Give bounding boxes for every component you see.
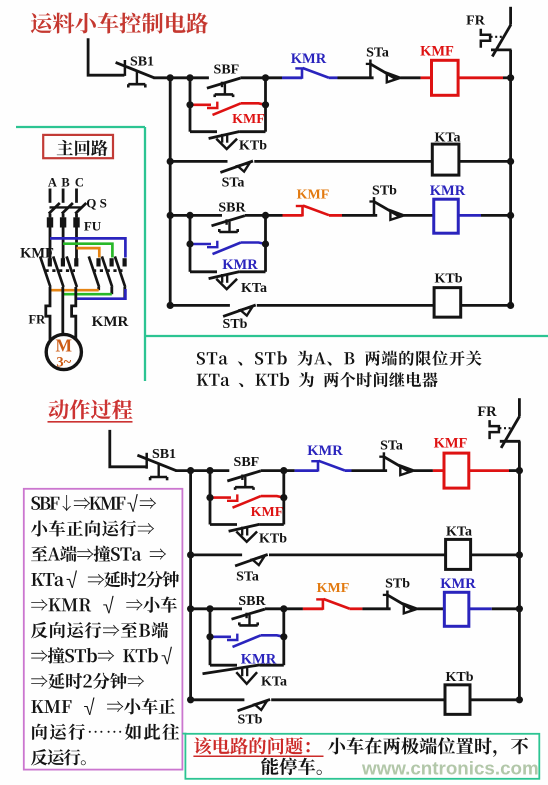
wire KMR to STa (action) [352, 469, 388, 472]
contact KMF main C [67, 256, 77, 287]
wire KMF coil to right bus (action) [469, 469, 520, 472]
watermark www.cntronics.com [361, 758, 539, 779]
limit switch STa (NC, action) [379, 452, 414, 475]
wire KMF to STb (action) [362, 607, 390, 610]
wire row2 left [170, 160, 227, 163]
label 主回路 [57, 140, 108, 156]
KMF linkage dotted [46, 269, 76, 272]
contact KMR main 1 [89, 256, 99, 287]
svg-text:STb: STb [372, 183, 397, 198]
junction left bus row2 [167, 158, 174, 165]
wire top feed to SB1 [88, 38, 124, 75]
fuse FU phase A [47, 214, 53, 228]
label KTb [239, 139, 267, 154]
problem text black part [328, 737, 528, 757]
wire KMR to STa [338, 76, 374, 79]
label KMR (blue, action) [307, 443, 343, 459]
junction KMR branch left (action) [206, 633, 213, 640]
label KTb (action) [259, 531, 287, 546]
sequence text line 7 [31, 647, 172, 665]
wire SBR to node (action) [265, 607, 284, 610]
coil KTa (time relay) [432, 144, 459, 175]
teal frame top line [16, 126, 145, 128]
svg-text:KMF: KMF [434, 436, 468, 452]
label phase A [48, 175, 57, 189]
label KTa contact (action) [261, 674, 287, 689]
junction KMF branch left [186, 101, 193, 108]
label M [56, 335, 73, 355]
problem text line2 [261, 758, 322, 775]
contact KMR main 2 [102, 256, 112, 287]
switch QS blade A [49, 203, 60, 214]
junction KMR branch right (action) [280, 633, 287, 640]
label STa (row2) [222, 176, 245, 191]
label FR heater [28, 312, 46, 326]
svg-text:STa: STa [222, 176, 245, 191]
wire green B-reverse [63, 244, 112, 258]
wire KTa branch left (action) [210, 664, 237, 667]
coil KMR (blue) [434, 199, 459, 233]
svg-text:STb: STb [385, 577, 410, 592]
contact KTa (NO delay, action) [203, 665, 260, 684]
wire KMR2 bottom lead [110, 287, 113, 294]
wire SB1 to SBF node [154, 76, 192, 79]
label FU [84, 219, 102, 234]
switch QS blade B [62, 203, 73, 214]
svg-text:KMF: KMF [297, 188, 330, 203]
svg-text:KTa: KTa [435, 130, 461, 145]
wire KTa coil to right bus (action) [471, 554, 520, 557]
svg-text:3~: 3~ [56, 355, 71, 371]
teal separator line [145, 335, 548, 337]
contact KTb (NC time-delay) [209, 132, 240, 150]
motor M 3~ [46, 334, 81, 369]
label phase C [75, 175, 84, 189]
sequence text line 8 [31, 673, 144, 689]
limit switch STb (row4) [223, 305, 256, 316]
svg-text:KMF: KMF [317, 581, 350, 596]
wire row3 left (action) [191, 607, 242, 610]
wire KMR3 bottom lead [123, 287, 126, 299]
label KMF coil (red, action) [434, 436, 468, 452]
svg-text:www.cntronics.com: www.cntronics.com [361, 758, 539, 779]
label STa (action) [380, 438, 403, 453]
wire orange reverse bottom to A [50, 289, 99, 292]
svg-text:KTb: KTb [434, 271, 462, 286]
wire KTa branch right [240, 270, 266, 273]
wire motor phase A with FR heater [46, 287, 50, 341]
label phase B [61, 175, 69, 189]
pushbutton SBR (NO start-reverse) [212, 216, 245, 232]
junction left bus row3 [167, 212, 174, 219]
label QS [86, 196, 107, 211]
wire motor phase B [61, 287, 64, 335]
svg-text:M: M [56, 335, 73, 355]
wire KTa branch right (action) [260, 664, 284, 667]
svg-text:KMR: KMR [430, 183, 466, 199]
contact KMF interlock (NC, red) [266, 206, 343, 217]
label KMF (red) [232, 112, 265, 127]
sequence text line 2 [31, 520, 154, 536]
svg-text:KTa: KTa [241, 281, 267, 296]
limit switch STa (row2) [220, 161, 253, 172]
label SBR [218, 200, 246, 215]
wire blue reverse bottom to C [76, 289, 126, 299]
label KMR self-hold (blue) [222, 257, 258, 273]
svg-text:SBR: SBR [218, 200, 246, 215]
svg-text:SBF: SBF [234, 455, 260, 470]
limit switch STb (row4, action) [238, 699, 271, 710]
wire row1 into SBF [190, 76, 209, 79]
wire row4 left [170, 304, 230, 307]
sequence text line 4 [31, 570, 179, 588]
junction SBF-block left (action) [206, 467, 213, 474]
label KMR coil (blue) [430, 183, 466, 199]
wire STb to KMR coil [404, 214, 434, 217]
junction KMF branch right [262, 101, 269, 108]
wire row1 into SBF (action) [210, 469, 229, 472]
wire STb to KMR coil (action) [417, 607, 444, 610]
wire phase B to KMF contact [62, 228, 65, 259]
junction SBF-block left row1 [186, 74, 193, 81]
label KMF (orange, action) [317, 581, 350, 596]
pushbutton SBR (NO, action) [232, 609, 265, 625]
label STa (row2, action) [236, 569, 259, 584]
label KMR (blue) [291, 51, 327, 67]
wire row3 left [170, 214, 222, 217]
limit switch STa (NC) [366, 60, 401, 83]
wire green reverse bottom to B [63, 293, 112, 296]
wire STa to KMF coil (action) [414, 469, 444, 472]
note line 1 [197, 350, 482, 365]
wire KTb coil to right bus [461, 304, 511, 307]
svg-text:FR: FR [477, 404, 497, 420]
fuse FU phase B [60, 214, 66, 228]
contact KMR self-hold (NO blue, action) [210, 634, 284, 647]
switch QS blade C [75, 203, 86, 214]
wire phase C lead [75, 189, 78, 203]
svg-text:KMR: KMR [307, 443, 343, 459]
wire row4 left (action) [191, 698, 245, 701]
svg-text:KMR: KMR [291, 51, 327, 67]
svg-text:A: A [48, 175, 57, 189]
wire SBF to node [240, 76, 265, 79]
svg-text:SBR: SBR [238, 594, 266, 609]
SBR-block right vertical (action) [282, 609, 285, 665]
contact KMF self-hold (NO red, action) [210, 494, 284, 507]
coil KMR (blue, action) [444, 592, 469, 626]
contact KMF main B [53, 256, 63, 287]
wire KTb branch right (action) [260, 523, 284, 526]
junction SBR-block left (action) [206, 605, 213, 612]
pink sequence box [24, 489, 183, 770]
wire KMF coil to right bus [458, 76, 511, 79]
coil KTa (action) [446, 539, 471, 569]
contact KMR interlock (NC blue, action) [295, 461, 352, 472]
label KTa [435, 130, 461, 145]
wire phase C to KMF contact [75, 228, 78, 259]
contact KTb (NC delay, action) [229, 524, 260, 542]
label KMF main contacts [20, 245, 54, 261]
svg-text:FU: FU [84, 219, 102, 234]
svg-text:STa: STa [380, 438, 403, 453]
problem box (teal) [185, 734, 539, 779]
coil KMF (red, action) [444, 453, 469, 488]
sequence text line 10 [32, 724, 179, 740]
label SBF [214, 62, 240, 77]
svg-text:KMR: KMR [440, 576, 476, 592]
svg-text:KTb: KTb [239, 139, 267, 154]
svg-text:KMF: KMF [232, 112, 265, 127]
svg-text:KTb: KTb [445, 670, 473, 685]
junction right bus row3 [507, 212, 514, 219]
junction right bus row2 [507, 158, 514, 165]
limit switch STa (row2, action) [235, 555, 268, 566]
right bus vertical [509, 50, 512, 306]
contact KMR main 3 [115, 256, 125, 287]
wire row1 node to KMR (action) [284, 469, 295, 472]
coil KTb (action) [445, 685, 470, 715]
junction right bus row4 [507, 302, 514, 309]
svg-text:STb: STb [223, 317, 248, 332]
wire KMF to STb [342, 214, 377, 217]
wire KTa branch left [190, 270, 217, 273]
wire KTb branch left (action) [210, 523, 237, 526]
problem text red underline [193, 755, 323, 757]
junction left bus row4 (action) [187, 696, 194, 703]
switch QS linkage bar [50, 206, 82, 208]
label KTb coil (action) [445, 670, 473, 685]
wire KTb branch right [240, 130, 266, 133]
contact KTa (NO time-delay) [209, 272, 240, 290]
problem text red part [194, 737, 310, 754]
sequence text line 5 [31, 596, 177, 614]
svg-text:FR: FR [28, 312, 46, 326]
wire KMR1 bottom lead [97, 287, 100, 290]
label KMF (orange) [297, 188, 330, 203]
wire row4 to KTb coil [257, 304, 434, 307]
label STb (action) [385, 577, 410, 592]
pushbutton SBF (NO, action) [227, 471, 260, 490]
svg-text:KMR: KMR [92, 314, 129, 330]
wire top feed to SB1 (action) [110, 430, 146, 467]
svg-text:STa: STa [236, 569, 259, 584]
fuse FU phase C [73, 214, 79, 228]
left bus vertical (action) [189, 471, 192, 700]
svg-text:STb: STb [238, 712, 263, 727]
junction KMF branch left (action) [206, 494, 213, 501]
junction right bus row3 (action) [516, 605, 523, 612]
wire SBF to node (action) [261, 469, 284, 472]
junction left bus row1 [167, 74, 174, 81]
label KTb coil [434, 271, 462, 286]
junction SBF-block right (action) [280, 467, 287, 474]
label 3~ [56, 355, 71, 371]
label FR [466, 13, 486, 28]
contact KMF main A [40, 256, 50, 287]
label KMR main contacts [92, 314, 129, 330]
junction KMR branch right [262, 240, 269, 247]
label SB1 [130, 54, 154, 69]
svg-text:KTb: KTb [259, 531, 287, 546]
junction left bus row2 (action) [187, 551, 194, 558]
wire row4 to KTb coil (action) [271, 698, 445, 701]
wire row1 node to KMR contact [266, 76, 283, 79]
contact KMR interlock (NC, blue) [282, 68, 338, 79]
label KTa (action) [446, 525, 472, 540]
label KMF coil (red) [420, 44, 454, 60]
junction KMR branch left [186, 240, 193, 247]
junction right bus row1 (action) [516, 467, 523, 474]
svg-text:B: B [61, 175, 69, 189]
junction right bus row4 (action) [516, 696, 523, 703]
junction left bus row4 [167, 302, 174, 309]
label KMR self-hold (blue, action) [241, 651, 277, 667]
wire row2 to KTa coil [254, 160, 432, 163]
label FR (action) [477, 404, 497, 420]
svg-text:FR: FR [466, 13, 486, 28]
SBF-block left vertical (action) [209, 471, 212, 525]
SBF-block right vertical [264, 78, 267, 132]
left bus vertical [169, 78, 172, 306]
wire SB1 to node (action) [175, 469, 211, 472]
junction left bus row1 (action) [187, 467, 194, 474]
wire KTa coil to right bus [459, 160, 511, 163]
pushbutton SBF (NO start-forward) [207, 78, 240, 97]
wire phase B lead [62, 189, 65, 203]
junction left bus row3 (action) [187, 605, 194, 612]
svg-text:Q S: Q S [86, 196, 107, 211]
junction SBR-block left row3 [186, 212, 193, 219]
SBR-block left vertical (action) [209, 609, 212, 665]
coil KTb (time relay) [434, 288, 461, 318]
coil KMF (red) [432, 60, 459, 95]
right bus vertical (action) [518, 441, 521, 700]
contact KMF interlock (NC red, action) [284, 599, 363, 610]
junction right bus row2 (action) [516, 551, 523, 558]
label STb (row4, action) [238, 712, 263, 727]
svg-text:KTa: KTa [261, 674, 287, 689]
wire phase A lead [49, 189, 52, 203]
note line 2 [197, 372, 438, 387]
pushbutton SB1 (NC, action) [137, 453, 176, 481]
KMR linkage dotted [93, 269, 123, 272]
sequence text line 6 [31, 622, 168, 638]
svg-text:SBF: SBF [214, 62, 240, 77]
limit switch STb (NC) [369, 197, 404, 220]
sequence text line 1 [31, 494, 156, 512]
svg-text:SB1: SB1 [152, 447, 176, 462]
sequence text line 9 [31, 698, 175, 716]
sequence text line 11 [31, 749, 86, 765]
label KTa contact [241, 281, 267, 296]
svg-text:KMF: KMF [251, 505, 284, 520]
svg-text:SB1: SB1 [130, 54, 154, 69]
junction KMF branch right (action) [280, 494, 287, 501]
svg-text:KTa: KTa [446, 525, 472, 540]
pushbutton SB1 (NC stop) [116, 60, 155, 88]
wire orange C-reverse [77, 248, 100, 257]
limit switch STb (NC, action) [383, 591, 418, 614]
label STb [372, 183, 397, 198]
svg-text:C: C [75, 175, 84, 189]
wire motor phase C with FR heater [72, 287, 76, 340]
junction SBF-block right row1 [262, 74, 269, 81]
label STa [366, 46, 389, 61]
label KMF (red, action) [251, 505, 284, 520]
wire KTb branch left [190, 130, 217, 133]
label KMR coil (blue, action) [440, 576, 476, 592]
teal connector to problem box [182, 733, 186, 735]
SBF-block right vertical (action) [282, 471, 285, 525]
svg-text:STa: STa [366, 46, 389, 61]
sequence text line 3 [31, 546, 166, 562]
title 动作过程 [48, 399, 133, 421]
wire row2 left (action) [191, 554, 243, 557]
teal frame right line [144, 127, 146, 381]
wire KMR coil to right bus [458, 214, 510, 217]
SBF-block left vertical [189, 78, 192, 132]
svg-text:KMF: KMF [420, 44, 454, 60]
junction right bus row1 [507, 74, 514, 81]
SBR-block left vertical [189, 215, 192, 271]
title 运料小车控制电路 [31, 13, 208, 34]
wire KMR coil to right bus (action) [469, 607, 520, 610]
thermal contact FR (NC, action) [490, 398, 521, 448]
wire SBR to node [245, 214, 266, 217]
box 主回路 [43, 135, 113, 158]
label STb (row4) [223, 317, 248, 332]
wire phase A to KMF contact [49, 228, 52, 259]
junction SBR-block right row3 [262, 212, 269, 219]
label SBF (action) [234, 455, 260, 470]
label SBR (action) [238, 594, 266, 609]
wire row2 to KTa coil (action) [269, 554, 446, 557]
contact KMF self-hold (NO, red) [190, 102, 266, 115]
wire KTb coil to right bus (action) [470, 698, 519, 701]
thermal contact FR (NC) [481, 7, 512, 57]
contact KMR self-hold (NO, blue) [190, 241, 266, 254]
wire blue A-reverse [50, 238, 125, 257]
SBR-block right vertical [264, 215, 267, 271]
junction SBR-block right (action) [280, 605, 287, 612]
label SB1 (action) [152, 447, 176, 462]
wire STa to KMF coil [400, 76, 431, 79]
